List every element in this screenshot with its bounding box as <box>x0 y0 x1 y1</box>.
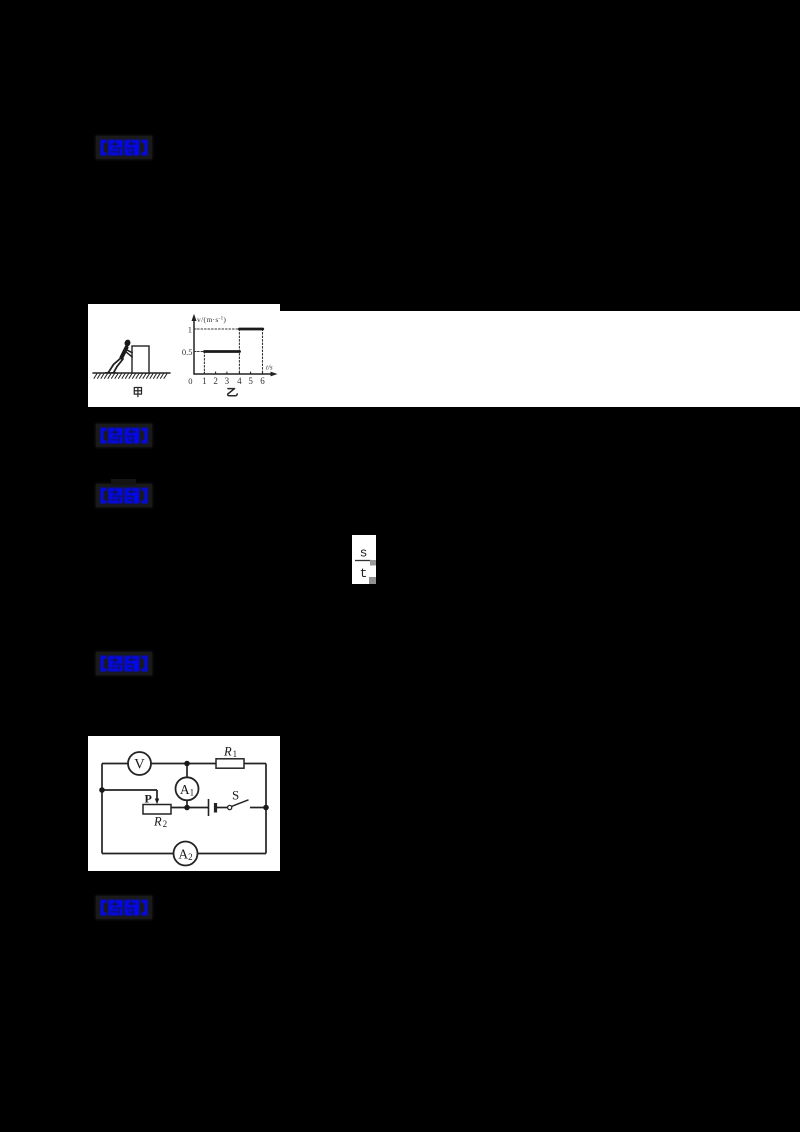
svg-text:v/(m·s-1): v/(m·s-1) <box>197 315 226 324</box>
svg-text:s: s <box>360 546 368 561</box>
svg-text:4: 4 <box>237 376 242 386</box>
svg-text:t/s: t/s <box>266 364 273 372</box>
svg-text:A2: A2 <box>178 847 192 863</box>
svg-text:1: 1 <box>202 376 207 386</box>
svg-text:3: 3 <box>225 376 230 386</box>
svg-text:0: 0 <box>188 376 192 386</box>
svg-text:t: t <box>360 566 368 581</box>
svg-text:1: 1 <box>233 749 238 759</box>
svg-text:A1: A1 <box>180 782 194 798</box>
svg-text:R: R <box>223 745 232 759</box>
svg-text:2: 2 <box>213 376 218 386</box>
svg-text:P: P <box>145 792 152 806</box>
svg-text:S: S <box>232 788 239 803</box>
svg-text:5: 5 <box>248 376 253 386</box>
svg-text:V: V <box>134 757 145 773</box>
svg-text:6: 6 <box>260 376 265 386</box>
svg-text:2: 2 <box>163 819 168 829</box>
svg-text:0.5: 0.5 <box>182 347 193 357</box>
svg-text:1: 1 <box>188 325 192 335</box>
svg-text:R: R <box>153 815 162 829</box>
